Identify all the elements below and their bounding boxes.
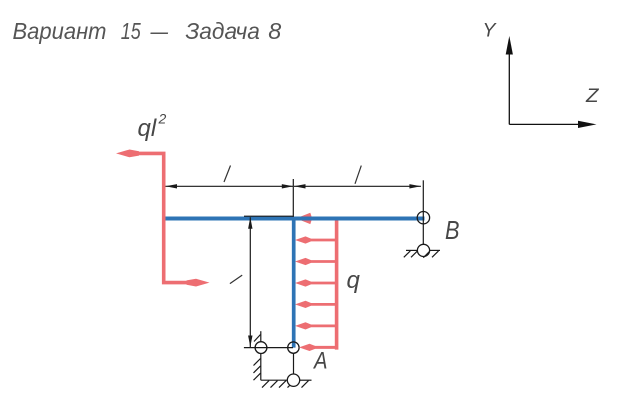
distributed load q (red) [335,218,339,350]
svg-text:A: A [312,348,327,375]
svg-text:Y: Y [483,20,498,42]
dimension l (left top) [166,179,424,244]
svg-text:Задача: Задача [185,18,260,44]
support A vertical link [293,354,295,375]
label ql2 [138,111,167,143]
support A wall [254,331,261,380]
svg-text:8: 8 [268,18,281,44]
load arrow 7 (over pin A) [311,346,337,349]
moment ql^2 (red couple) [137,153,189,282]
support B link [422,243,424,245]
label l (rotated, vertical dim) [230,275,242,284]
vertical dimension l [244,217,293,347]
svg-text:Вариант: Вариант [13,18,107,44]
svg-text:—: — [150,18,169,44]
pin A hinge [288,342,299,353]
svg-text:q: q [347,267,361,294]
title: Вариант 15 — Задача 8 [13,18,282,44]
svg-text:15: 15 [121,18,142,44]
support B hinge at beam [417,212,429,224]
axis Y [508,52,510,124]
svg-text:2: 2 [158,111,167,127]
support A bottom hinge [287,374,299,386]
svg-text:Z: Z [585,85,600,107]
label l (second span) [355,166,361,184]
axis Z [509,123,580,125]
support A ground [261,380,312,387]
label l (first span) [224,166,231,183]
svg-text:B: B [445,215,460,245]
support B ground [404,250,440,257]
column (blue vertical) [292,217,296,348]
svg-text:ql: ql [138,115,157,142]
beam (blue horizontal) [166,217,425,221]
support B bottom hinge [417,244,429,256]
support A left hinge [255,342,267,354]
